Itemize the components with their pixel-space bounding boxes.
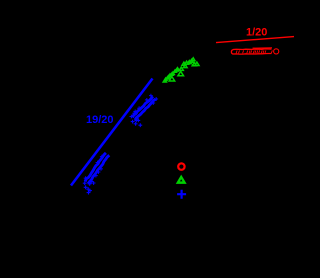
blue guide line slope 19/20 xyxy=(71,79,153,186)
green triangle marker series xyxy=(163,58,199,82)
svg-text:1/20: 1/20 xyxy=(246,27,267,39)
svg-text:19/20: 19/20 xyxy=(86,114,114,126)
red guide line slope 1/20 xyxy=(216,37,294,43)
blue plus marker band upper segment xyxy=(132,94,155,123)
blue plus marker band lower tail outliers xyxy=(83,180,96,195)
blue plus marker band lower segment xyxy=(84,153,110,186)
legend blue plus marker xyxy=(177,190,186,199)
legend red circle marker xyxy=(178,163,184,169)
blue plus marker band upper segment outliers xyxy=(130,97,159,127)
legend green triangle marker xyxy=(178,177,185,183)
red circle marker series (overlapping rings band) xyxy=(231,48,278,54)
